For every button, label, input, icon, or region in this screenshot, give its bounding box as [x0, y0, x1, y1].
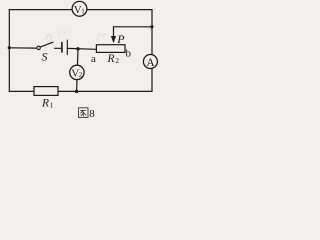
faint show-through marks — [46, 35, 52, 41]
svg-text:2: 2 — [115, 56, 119, 65]
svg-text:P: P — [116, 32, 125, 46]
wire bottom — [9, 90, 152, 92]
node right junction — [150, 25, 153, 28]
resistor R1 body — [34, 87, 58, 96]
wire right — [151, 10, 153, 92]
wire middle branch left — [9, 47, 37, 49]
switch S — [37, 42, 61, 49]
svg-text:A: A — [146, 57, 155, 69]
svg-text:R: R — [107, 53, 115, 65]
svg-text:8: 8 — [89, 108, 95, 120]
node junction battery/rheostat/V2 — [76, 47, 79, 50]
wire left — [8, 10, 10, 92]
rheostat R2 body — [96, 45, 125, 53]
battery cell — [62, 40, 97, 55]
voltmeter V2 — [70, 65, 84, 79]
svg-text:S: S — [42, 50, 48, 64]
voltmeter V1 — [72, 1, 87, 16]
node bottom junction — [75, 90, 78, 93]
svg-text:a: a — [91, 53, 96, 65]
svg-text:2: 2 — [79, 71, 83, 79]
svg-text:1: 1 — [81, 7, 85, 15]
wire top — [9, 9, 152, 11]
wire V2 branch — [77, 49, 78, 92]
svg-text:R: R — [41, 98, 49, 110]
ammeter A — [143, 55, 157, 69]
caption 图8 — [78, 108, 88, 118]
wire slider to right — [114, 26, 153, 28]
rheostat slider arrow P — [111, 27, 116, 44]
svg-text:b: b — [126, 48, 132, 60]
node left junction — [8, 46, 11, 49]
svg-text:1: 1 — [50, 101, 54, 110]
